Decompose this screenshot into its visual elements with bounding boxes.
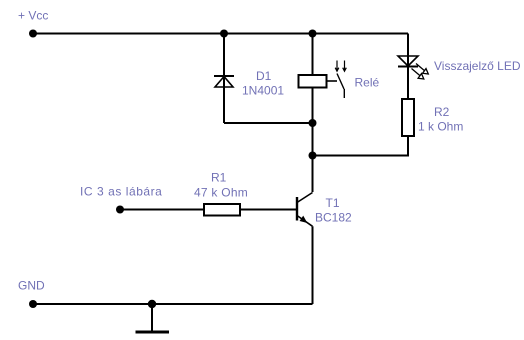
- junction ground symbol: [148, 300, 156, 308]
- node IC pin terminal: [116, 206, 124, 214]
- diode D1 (cathode bar): [214, 75, 234, 77]
- transistor T1 emitter diagonal: [297, 216, 313, 227]
- node GND terminal: [29, 300, 37, 308]
- svg-text:R1: R1: [211, 171, 227, 185]
- svg-text:R2: R2: [434, 105, 450, 119]
- ground bar: [136, 331, 170, 334]
- node Vcc terminal: [29, 30, 37, 38]
- wire diode bottom horizontal: [224, 122, 313, 124]
- junction top rail / diode D1: [220, 30, 228, 38]
- svg-text:IC 3 as lábára: IC 3 as lábára: [80, 185, 162, 199]
- resistor R1 body: [204, 204, 240, 216]
- wire ground rail: [33, 303, 313, 305]
- wire base right segment: [240, 209, 296, 211]
- transistor T1 collector diagonal: [297, 193, 313, 203]
- svg-text:BC182: BC182: [315, 211, 352, 225]
- wire emitter vertical: [312, 226, 314, 304]
- svg-text:1N4001: 1N4001: [242, 84, 284, 98]
- wire relay coil top lead: [312, 34, 314, 76]
- svg-text:1 k Ohm: 1 k Ohm: [418, 120, 463, 134]
- relay actuation arrow left: [335, 61, 339, 72]
- LED emission arrow lower: [412, 69, 424, 80]
- wire collector vertical: [312, 156, 314, 193]
- svg-text:Relé: Relé: [355, 76, 380, 90]
- wire top supply rail: [33, 33, 408, 35]
- svg-text:GND: GND: [18, 279, 45, 293]
- LED cathode bar: [398, 66, 418, 68]
- junction collector node: [309, 152, 317, 160]
- wire relay coil bottom lead: [312, 88, 314, 156]
- transistor T1 base bar: [296, 197, 298, 221]
- LED triangle: [398, 56, 418, 66]
- wire R2 bottom lead: [313, 136, 409, 156]
- relay contact fixed stub: [327, 80, 338, 82]
- junction diode bottom / relay branch: [309, 119, 317, 127]
- resistor R2 body: [402, 99, 414, 136]
- LED emission arrow upper: [416, 64, 428, 75]
- svg-text:47 k Ohm: 47 k Ohm: [194, 186, 248, 200]
- diode D1 (triangle): [215, 77, 233, 88]
- svg-text:T1: T1: [326, 196, 340, 210]
- relay actuation arrow right: [343, 61, 347, 72]
- relay contact blade: [337, 74, 344, 90]
- relay contact moving lead: [343, 89, 345, 98]
- ground stub: [151, 304, 153, 332]
- svg-text:Visszajelző LED: Visszajelző LED: [434, 59, 521, 73]
- wire diode branch vertical: [223, 34, 225, 124]
- wire base left segment: [120, 209, 204, 211]
- svg-text:+ Vcc: + Vcc: [18, 9, 48, 23]
- svg-text:D1: D1: [256, 69, 272, 83]
- relay coil box: [299, 75, 327, 88]
- transistor T1 emitter arrow: [300, 216, 306, 222]
- junction top rail / relay coil: [309, 30, 317, 38]
- wire LED branch vertical: [407, 34, 409, 100]
